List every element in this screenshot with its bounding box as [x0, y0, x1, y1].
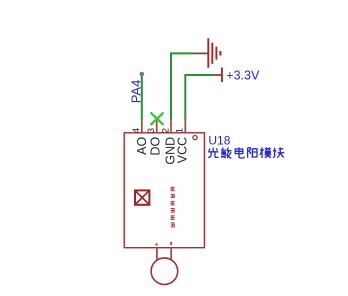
- svg-text:+3.3V: +3.3V: [226, 69, 260, 83]
- small red circle marker near VCC: [193, 136, 197, 140]
- svg-text:DO: DO: [149, 137, 163, 156]
- component U18 body: [124, 133, 204, 248]
- svg-text:PA4: PA4: [129, 80, 144, 104]
- bottom pin b (right): [170, 248, 172, 260]
- char 光: [208, 148, 219, 158]
- wire end dot: [140, 72, 145, 77]
- +3.3V power symbol: [214, 68, 222, 83]
- wire PA4 (pin 4): [141, 74, 143, 120]
- wire VCC (pin 1 up and right): [185, 75, 214, 120]
- char 模: [260, 147, 271, 158]
- tiny pin number mark left: [155, 243, 159, 246]
- pin 1 (VCC) stub: [184, 120, 186, 133]
- ground symbol: [193, 38, 220, 67]
- char 阻: [248, 148, 258, 158]
- char 电: [235, 147, 244, 158]
- photoresistor circle: [151, 258, 178, 285]
- no-ERC cross on pin 3: [151, 113, 163, 124]
- char 敏: [221, 148, 231, 159]
- comment 光敏电阻模块 (drawn glyphs): [208, 147, 284, 158]
- svg-text:4: 4: [131, 128, 142, 133]
- inner vertical red text 光敏电阻模块 (tiny): [171, 187, 175, 227]
- wire GND (pin 2 up and right): [171, 53, 193, 120]
- svg-text:AO: AO: [135, 137, 149, 155]
- tiny pin number mark right: [170, 242, 172, 245]
- svg-text:2: 2: [160, 128, 171, 133]
- pin 4 (AO) stub: [141, 120, 143, 133]
- svg-text:U18: U18: [208, 134, 230, 148]
- pin 3 (DO) stub: [156, 119, 158, 133]
- char 块: [273, 147, 284, 157]
- crossed square symbol: [135, 190, 149, 204]
- bottom pin a (left): [156, 248, 158, 260]
- pin 2 (GND) stub: [170, 120, 172, 133]
- svg-text:3: 3: [146, 128, 157, 133]
- svg-text:VCC: VCC: [175, 137, 189, 163]
- svg-text:1: 1: [175, 128, 186, 133]
